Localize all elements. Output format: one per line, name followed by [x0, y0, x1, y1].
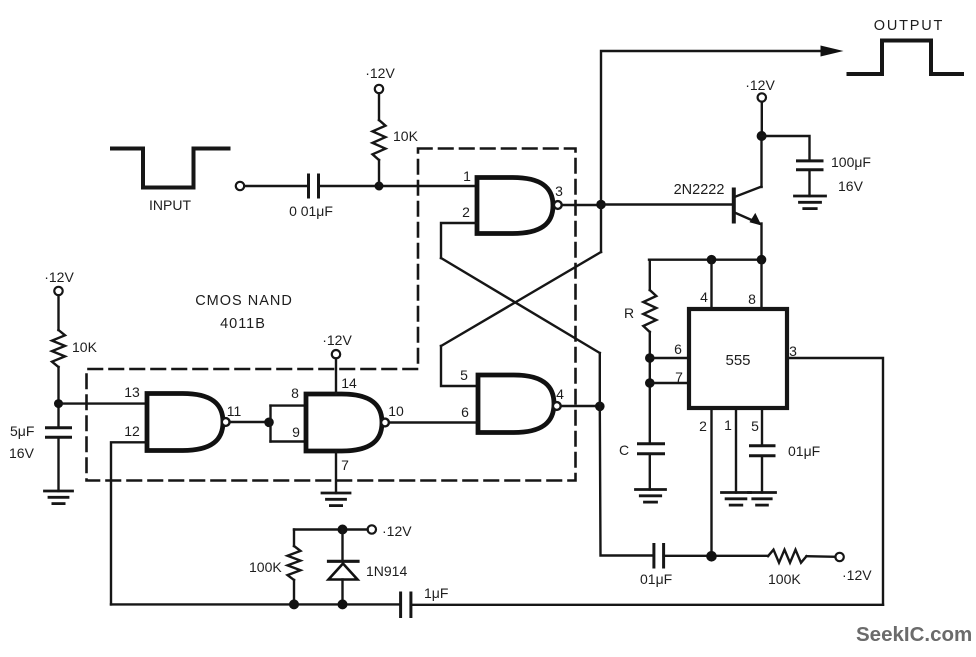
svg-text:·12V: ·12V [44, 269, 74, 285]
svg-text:3: 3 [789, 343, 797, 359]
op gate U1c NAND pins 13 12 out 11 [147, 394, 223, 451]
svg-text:7: 7 [675, 369, 683, 385]
wire out3 node down (cross coupling) [600, 205, 602, 253]
capacitor .01uF bottom [652, 545, 655, 568]
op gate U1b NAND pins 5 6 out 4 [478, 375, 554, 433]
svg-text:100K: 100K [249, 559, 282, 575]
node pin7 [645, 378, 655, 388]
svg-text:9: 9 [292, 424, 300, 440]
bottom rail left [111, 603, 400, 605]
svg-text:10: 10 [388, 403, 404, 419]
arrowhead output [821, 46, 844, 57]
ground 100uF [795, 195, 826, 198]
wire pin 12 down to bottom rail [111, 442, 147, 604]
svg-text:2N2222: 2N2222 [674, 182, 725, 198]
svg-text:·12V: ·12V [842, 567, 872, 583]
pin 2 wire down [710, 408, 712, 557]
bracket to pins 8 and 9 [269, 406, 271, 442]
svg-text:8: 8 [748, 291, 756, 307]
OUTPUT waveform [849, 41, 963, 75]
svg-text:0 01μF: 0 01μF [289, 203, 333, 219]
capacitor C [639, 442, 664, 445]
svg-text:1N914: 1N914 [366, 563, 407, 579]
transistor Q1 2N2222 [732, 190, 736, 222]
node diode bottom [338, 599, 348, 609]
svg-text:CMOS NAND: CMOS NAND [195, 293, 293, 309]
svg-text:·12V: ·12V [382, 523, 412, 539]
ground pin7 [322, 492, 350, 495]
wire corner to 100K [293, 530, 295, 547]
wire 10K to node [378, 160, 380, 186]
svg-text:1: 1 [463, 168, 471, 184]
node diode top [338, 525, 348, 535]
node pin4 rail [707, 255, 717, 265]
node out11 [264, 418, 274, 428]
resistor R [643, 290, 656, 332]
svg-text:100K: 100K [768, 571, 801, 587]
svg-text:6: 6 [461, 404, 469, 420]
pin 8 wire [760, 260, 762, 309]
svg-text:14: 14 [341, 375, 357, 391]
wire out3 to node [562, 204, 601, 206]
svg-text:OUTPUT: OUTPUT [874, 18, 944, 34]
emitter wire down [760, 224, 762, 260]
dashed box CMOS NAND 4011B [87, 149, 576, 481]
svg-text:C: C [619, 442, 629, 458]
svg-text:12: 12 [124, 423, 140, 439]
wire cap to node2 [664, 555, 768, 557]
pin 14 wire to +12V [335, 358, 337, 394]
svg-text:1: 1 [724, 417, 732, 433]
wire out10 to pin 6 [389, 421, 478, 423]
svg-text:6: 6 [674, 341, 682, 357]
wire R to node6 [649, 332, 651, 444]
wire 100K to terminal [807, 555, 836, 558]
svg-text:4: 4 [700, 289, 708, 305]
svg-text:16V: 16V [838, 178, 864, 194]
resistor 10K top [373, 120, 386, 160]
svg-text:10K: 10K [72, 339, 98, 355]
pin 1 wire to ground [735, 408, 737, 493]
wire out4 node down to .01uF [600, 406, 654, 555]
svg-text:01μF: 01μF [640, 571, 672, 587]
pin 7 wire to ground [335, 451, 337, 493]
svg-text:01μF: 01μF [788, 443, 820, 459]
wire emitter rail [649, 259, 762, 261]
input terminal [236, 182, 244, 190]
svg-text:5: 5 [460, 367, 468, 383]
svg-text:1μF: 1μF [424, 585, 448, 601]
node 100K bottom [289, 599, 299, 609]
resistor 100K right [768, 550, 807, 563]
svg-text:11: 11 [227, 403, 242, 419]
svg-text:2: 2 [462, 204, 470, 220]
wire 12V to R 10K [378, 93, 380, 120]
svg-text:SeekIC.com: SeekIC.com [856, 623, 972, 646]
op-amp 555 IC box [689, 309, 787, 408]
node collector [757, 131, 767, 141]
svg-text:7: 7 [341, 457, 349, 473]
wire out3 node up to output arrow [601, 51, 822, 200]
pin 4 wire [710, 260, 712, 309]
capacitor 1uF [399, 593, 402, 617]
svg-text:·12V: ·12V [365, 65, 395, 81]
svg-text:INPUT: INPUT [149, 197, 191, 213]
resistor 10K left [52, 330, 65, 367]
ground C [636, 488, 666, 491]
node out3 [596, 200, 606, 210]
svg-text:16V: 16V [9, 445, 35, 461]
wire pin2 feedback [441, 223, 477, 258]
wire +12V to diode node [294, 528, 368, 530]
INPUT waveform [112, 149, 229, 188]
pin 7 wire [650, 382, 689, 384]
pin 5 wire to cap [761, 408, 763, 446]
svg-text:5μF: 5μF [10, 423, 34, 439]
wire rail to R [649, 260, 651, 290]
diagonal out4 to pin2 [441, 258, 600, 353]
svg-text:5: 5 [751, 418, 759, 434]
svg-text:13: 13 [124, 384, 140, 400]
svg-text:2: 2 [699, 418, 707, 434]
svg-text:3: 3 [555, 183, 563, 199]
+12V terminal diode [368, 525, 376, 533]
capacitor 100uF 16V [798, 159, 823, 162]
node emitter [757, 255, 767, 265]
collector wire up [760, 136, 762, 187]
diode 1N914 [341, 530, 343, 562]
capacitor 0.01uF [307, 175, 310, 197]
wire out4 to node [561, 405, 600, 407]
svg-text:R: R [624, 305, 634, 321]
bottom rail right [411, 604, 883, 606]
wire C1 to pin1 [319, 185, 478, 187]
capacitor .01uF pin5 [751, 444, 775, 447]
svg-text:8: 8 [291, 385, 299, 401]
op gate U1d NAND pins 8 9 out 10 pin14 pin7 [306, 394, 382, 451]
wire out11 to node [230, 421, 269, 423]
wire input to C1 [244, 185, 308, 187]
wire out4 node up (cross coupling) [599, 353, 601, 406]
node left [54, 399, 63, 408]
svg-text:4: 4 [556, 386, 564, 402]
svg-text:10K: 10K [393, 128, 419, 144]
+12V terminal bottom right [835, 553, 843, 561]
svg-text:4011B: 4011B [220, 316, 266, 332]
node out4 [595, 402, 605, 412]
svg-text:100μF: 100μF [831, 154, 871, 170]
node input [375, 182, 384, 191]
wire node3 to base [601, 203, 732, 205]
diagonal out3 to pin5 [441, 252, 601, 346]
capacitor 5uF 16V [47, 426, 71, 429]
ground 5uF [45, 490, 73, 493]
svg-text:555: 555 [725, 352, 750, 369]
resistor 100K left [288, 546, 301, 580]
op gate U1a NAND pins 1 2 out 3 [477, 178, 553, 234]
svg-text:·12V: ·12V [322, 332, 352, 348]
wire node to pin 13 [59, 402, 148, 404]
node pin6 [645, 353, 655, 363]
node pin2 bottom [706, 551, 717, 562]
pin 3 wire right and down [787, 358, 883, 605]
wire node to 100uF [762, 136, 810, 161]
wire to pin 5 [441, 346, 478, 386]
svg-text:·12V: ·12V [745, 77, 775, 93]
pin 6 wire [650, 357, 689, 359]
